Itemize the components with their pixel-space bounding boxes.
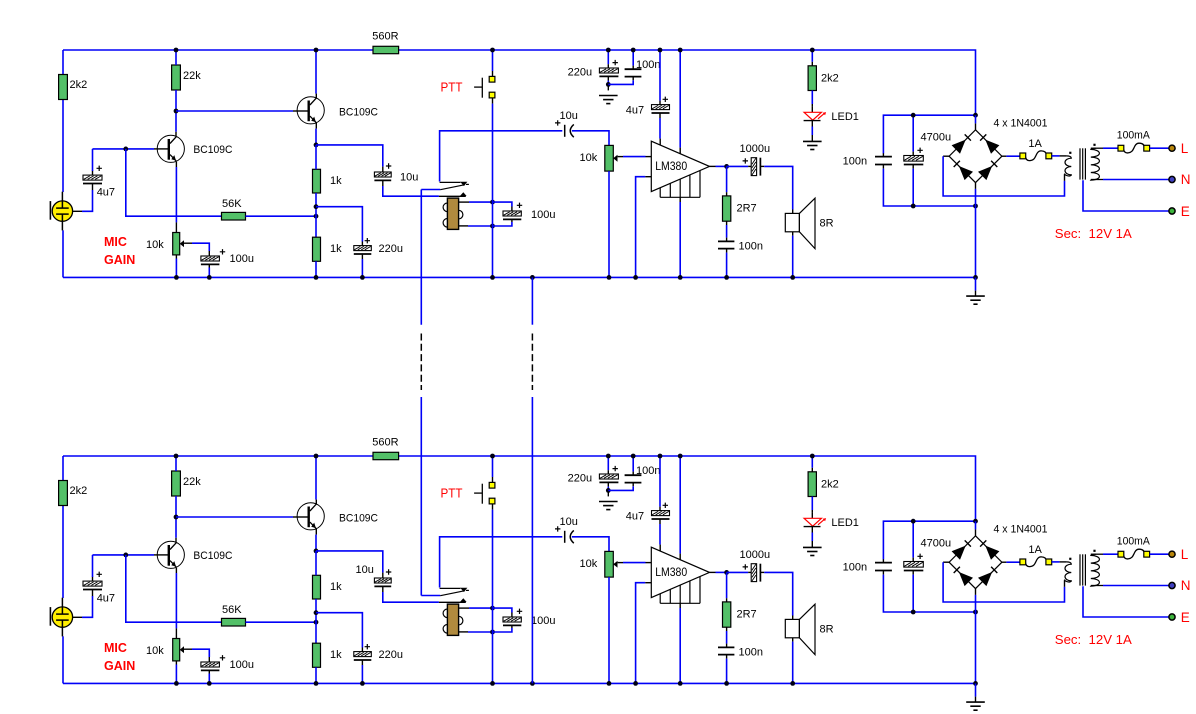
wire pot wiper to 100u (station 2) <box>184 648 192 650</box>
wire 220u bottom (station 2) <box>361 661 363 665</box>
fuse 100mA (station 2) <box>1124 549 1145 559</box>
wire PTT to coil (station 2) <box>492 504 494 510</box>
op-amp U1 LM380 (station 2) <box>651 547 709 597</box>
svg-text:L: L <box>1181 547 1189 562</box>
svg-text:Sec: 12V 1A: Sec: 12V 1A <box>1055 632 1132 647</box>
wire LM380 ground (station 2) <box>679 603 681 608</box>
svg-text:56K: 56K <box>222 198 242 210</box>
svg-text:PTT: PTT <box>441 486 463 501</box>
resistor 2k2 mic supply (station 1) <box>59 75 68 100</box>
wire interconnect line A <box>420 190 422 325</box>
microphone (station 1) <box>61 192 63 201</box>
wire volume pot bottom (station 1) <box>608 171 610 277</box>
wire 10u to switch (station 2) <box>382 586 384 592</box>
wire 100n link (station 2) <box>608 486 633 490</box>
capacitor 100n reservoir (station 2) <box>882 559 884 563</box>
bridge rectifier 4 x 1N4001 (station 1) <box>949 130 1002 183</box>
wire 220u to ground sym (station 2) <box>607 482 609 486</box>
resistor 560R supply (station 1) <box>373 46 399 53</box>
bridge left lead / AC (station 2) <box>943 561 949 563</box>
svg-text:100n: 100n <box>739 241 763 253</box>
potentiometer 10k MIC GAIN (station 1) <box>173 233 180 255</box>
wire 100u bottom (station 1) <box>208 264 210 267</box>
svg-text:GAIN: GAIN <box>104 659 135 673</box>
bridge bottom lead (station 1) <box>975 183 977 189</box>
svg-text:4u7: 4u7 <box>97 593 115 605</box>
switch PTT (station 2) <box>492 456 494 477</box>
wire secondary bottom (station 2) <box>1091 585 1103 587</box>
wire left rail lower (station 2) <box>62 506 64 599</box>
svg-text:100mA: 100mA <box>1117 536 1151 548</box>
wire pot bottom (station 2) <box>175 661 177 665</box>
svg-text:2k2: 2k2 <box>70 79 88 91</box>
svg-text:220u: 220u <box>568 473 592 485</box>
node Q2 emitter (station 1) <box>314 143 319 148</box>
wire Q1 emitter to pot (station 2) <box>175 568 177 573</box>
wire 220u to ground sym (station 1) <box>607 76 609 80</box>
capacitor 100u mic-gain bypass (station 1) <box>201 256 220 261</box>
microphone (station 2) <box>61 598 63 607</box>
svg-text:22k: 22k <box>183 70 201 82</box>
svg-text:560R: 560R <box>372 436 398 448</box>
wire 100n riser (station 1) <box>883 115 975 153</box>
speaker 8R (station 1) <box>785 213 799 231</box>
wire 100n riser (station 2) <box>883 521 975 559</box>
capacitor 100u line (station 2) <box>493 608 512 612</box>
svg-text:LED1: LED1 <box>831 111 859 123</box>
wire 4u7 to mic (station 2) <box>92 590 94 597</box>
transistor Q2 BC109C (station 1) <box>297 97 324 124</box>
switch lever (station 2) <box>421 595 440 597</box>
svg-text:2R7: 2R7 <box>737 609 757 621</box>
svg-text:N: N <box>1181 172 1191 187</box>
LM380 ground pins comb (station 1) <box>659 188 661 198</box>
bridge top lead (station 1) <box>975 123 977 129</box>
terminal L (station 1) <box>1169 145 1175 151</box>
wire 100n down (station 2) <box>882 571 884 575</box>
terminal L (station 2) <box>1169 551 1175 557</box>
ground supply filter (station 1) <box>599 95 618 97</box>
svg-text:100u: 100u <box>230 659 254 671</box>
svg-text:4 x 1N4001: 4 x 1N4001 <box>994 524 1048 536</box>
svg-text:Sec: 12V 1A: Sec: 12V 1A <box>1055 226 1132 241</box>
svg-text:4u7: 4u7 <box>626 511 644 523</box>
ground supply filter (station 2) <box>599 501 618 503</box>
LED1 (station 1) <box>811 91 813 107</box>
ground PSU (station 2) <box>975 683 977 696</box>
wire coil to ground rail (station 2) <box>492 632 494 683</box>
wire 22k to Q1 collector (station 1) <box>175 90 177 132</box>
wire Q2 emitter (station 1) <box>315 123 317 129</box>
svg-text:100u: 100u <box>531 615 555 627</box>
phase dot secondary (station 2) <box>1093 550 1095 552</box>
capacitor 100u mic-gain bypass (station 2) <box>201 662 220 667</box>
wire base to 4u7 (station 2) <box>92 555 94 577</box>
svg-text:100u: 100u <box>230 253 254 265</box>
phase dot secondary (station 1) <box>1093 144 1095 146</box>
wire 22k to Q1 collector (station 2) <box>175 496 177 538</box>
wire to 220u bypass (station 2) <box>316 613 362 648</box>
capacitor 100n zobel (station 1) <box>718 240 734 242</box>
svg-text:1k: 1k <box>330 649 342 661</box>
wire pot wiper to 100u (station 1) <box>184 242 192 244</box>
switch contact A (to receive path) (station 1) <box>440 131 563 182</box>
resistor 56K feedback (station 1) <box>222 212 246 220</box>
node coil top (station 1) <box>490 200 495 205</box>
wire LM380 output (station 1) <box>710 165 716 167</box>
bridge left lead / AC (station 1) <box>943 155 949 157</box>
bridge top lead (station 2) <box>975 529 977 535</box>
wire feedback riser (station 2) <box>126 555 221 622</box>
svg-text:MIC: MIC <box>104 235 127 249</box>
svg-text:1k: 1k <box>330 581 342 593</box>
capacitor 1000u output (station 1) <box>727 165 749 167</box>
node output (station 1) <box>724 164 729 169</box>
wire mic to ground rail (station 1) <box>62 230 64 277</box>
svg-text:E: E <box>1181 610 1190 625</box>
svg-text:2k2: 2k2 <box>821 479 839 491</box>
svg-text:4u7: 4u7 <box>626 105 644 117</box>
switch contact B (to talk path) (station 1) <box>439 195 466 197</box>
svg-text:BC109C: BC109C <box>339 513 378 525</box>
wire secondary top (station 1) <box>1091 147 1103 149</box>
node Q2 emitter (station 2) <box>314 549 319 554</box>
ground PSU (station 1) <box>975 277 977 290</box>
wire wiper to LM380 (station 1) <box>618 156 623 158</box>
svg-text:E: E <box>1181 204 1190 219</box>
svg-text:10u: 10u <box>560 110 578 122</box>
wire left rail upper (station 2) <box>62 456 64 481</box>
svg-text:100n: 100n <box>739 647 763 659</box>
node station link (station 2) <box>530 681 535 686</box>
wire LM380 pin14 (station 1) <box>679 50 681 148</box>
wire 10u to switch (station 1) <box>382 180 384 186</box>
wire Q1 base (station 2) <box>93 554 155 556</box>
wire LED to ground (station 1) <box>811 121 813 127</box>
terminal N (station 2) <box>1169 582 1175 588</box>
wire Q2 collector (station 1) <box>315 50 317 94</box>
node +V bridge (station 1) <box>973 113 978 118</box>
svg-text:1A: 1A <box>1028 138 1042 150</box>
wire 220u bottom (station 1) <box>361 255 363 259</box>
svg-text:4 x 1N4001: 4 x 1N4001 <box>994 118 1048 130</box>
svg-text:4700u: 4700u <box>921 538 952 550</box>
svg-text:8R: 8R <box>820 218 834 230</box>
capacitor 4700u reservoir (station 2) <box>912 521 914 557</box>
transistor Q1 BC109C (station 2) <box>157 541 184 568</box>
resistor 1k lower (station 2) <box>313 643 321 667</box>
svg-text:BC109C: BC109C <box>339 107 378 119</box>
svg-text:N: N <box>1181 578 1191 593</box>
fuse 1A (station 2) <box>1025 557 1046 567</box>
node coil bottom (station 1) <box>490 224 495 229</box>
wire mic to ground rail (station 2) <box>62 636 64 683</box>
wire bridge minus to ground rail (station 1) <box>975 206 977 277</box>
svg-text:MIC: MIC <box>104 641 127 655</box>
wire LM380 output (station 2) <box>710 571 716 573</box>
wire PTT to coil (station 1) <box>492 98 494 104</box>
wire emitter to 10u (station 1) <box>316 145 383 167</box>
resistor 56K feedback (station 2) <box>222 618 246 626</box>
transformer T1 mains (station 2) <box>1079 554 1081 585</box>
wire coil junctions (station 1) <box>492 202 494 226</box>
transformer T1 mains (station 1) <box>1079 148 1081 179</box>
op-amp U1 LM380 (station 1) <box>651 141 709 191</box>
wire base to 4u7 (station 1) <box>92 149 94 171</box>
LED1 (station 2) <box>811 497 813 513</box>
wire 10u to volume pot (station 1) <box>572 131 609 146</box>
wire secondary top (station 2) <box>1091 553 1103 555</box>
speaker 8R (station 2) <box>785 619 799 637</box>
svg-text:10u: 10u <box>400 172 418 184</box>
svg-text:100n: 100n <box>843 561 867 573</box>
capacitor 10u receive (station 2) <box>555 526 560 531</box>
svg-text:LED1: LED1 <box>831 517 859 529</box>
node station link (station 1) <box>530 275 535 280</box>
node coil top (station 2) <box>490 606 495 611</box>
coil top lead (station 1) <box>459 201 469 203</box>
wire fuse to primary (station 2) <box>1052 561 1060 563</box>
wire 100n down (station 1) <box>882 165 884 169</box>
svg-text:LM380: LM380 <box>655 567 687 579</box>
coil top lead (station 2) <box>459 607 469 609</box>
induction coil (station 2) <box>443 609 452 618</box>
wire 22k top (station 2) <box>175 456 177 471</box>
resistor 2R7 zobel (station 2) <box>726 572 728 598</box>
svg-text:1000u: 1000u <box>740 143 771 155</box>
wire feedback riser (station 1) <box>126 149 221 216</box>
wire speaker bottom (station 1) <box>792 232 794 236</box>
wire left rail upper (station 1) <box>62 50 64 75</box>
node Q1 collector / Q2 base (station 1) <box>174 109 179 114</box>
wire +V top rail (station 2) <box>63 456 976 521</box>
capacitor 100n reservoir (station 1) <box>882 153 884 157</box>
svg-text:100n: 100n <box>636 465 660 477</box>
LM380 ground pins comb (station 2) <box>659 594 661 604</box>
wire LED to ground (station 2) <box>811 527 813 533</box>
svg-text:10k: 10k <box>146 239 164 251</box>
svg-text:BC109C: BC109C <box>193 550 232 562</box>
resistor 2k2 mic supply (station 2) <box>59 481 68 506</box>
wire left rail lower (station 1) <box>62 100 64 193</box>
wire volume pot bottom (station 2) <box>608 577 610 683</box>
svg-text:10k: 10k <box>146 645 164 657</box>
svg-text:100n: 100n <box>843 155 867 167</box>
wire to 220u bypass (station 1) <box>316 207 362 242</box>
wire Q1 emitter to pot (station 1) <box>175 162 177 167</box>
resistor 2R7 zobel (station 1) <box>726 166 728 192</box>
wire coil to ground rail (station 1) <box>492 226 494 277</box>
capacitor 4u7 mic coupling (station 2) <box>92 577 94 582</box>
wire interconnect line B (ground link) <box>531 277 533 324</box>
svg-text:L: L <box>1181 141 1189 156</box>
wire LM380 ground (station 1) <box>679 197 681 202</box>
svg-text:100u: 100u <box>531 209 555 221</box>
capacitor 1000u output (station 2) <box>727 571 749 573</box>
wire to L terminal (station 2) <box>1150 553 1169 555</box>
svg-text:1k: 1k <box>330 175 342 187</box>
terminal E (station 1) <box>1169 208 1175 214</box>
wire 1k upper top (station 2) <box>315 551 317 575</box>
wire fuse to primary (station 1) <box>1052 155 1060 157</box>
wire 56K to Q2 emitter node (station 1) <box>246 215 317 217</box>
potentiometer 10k MIC GAIN (station 2) <box>173 639 180 661</box>
capacitor 220u emitter bypass (station 2) <box>354 652 372 657</box>
capacitor 220u supply (station 1) <box>607 50 609 64</box>
wire pot bottom (station 1) <box>175 255 177 259</box>
wire earth (station 1) <box>1083 180 1169 211</box>
wire 1k lower bottom (station 2) <box>315 667 317 683</box>
wire 22k top (station 1) <box>175 50 177 65</box>
svg-text:10k: 10k <box>580 152 598 164</box>
wire speaker bottom (station 2) <box>792 638 794 642</box>
wire LM380 input 2 (station 2) <box>636 583 646 684</box>
capacitor 10u receive (station 1) <box>555 120 560 125</box>
svg-text:1A: 1A <box>1028 544 1042 556</box>
svg-text:100mA: 100mA <box>1117 130 1151 142</box>
node 56K (station 1) <box>314 214 319 219</box>
node +V bridge (station 2) <box>973 519 978 524</box>
svg-text:8R: 8R <box>820 624 834 636</box>
wire ground bottom rail (station 1) <box>63 276 976 278</box>
svg-text:LM380: LM380 <box>655 161 687 173</box>
wire 1k upper top (station 1) <box>315 145 317 169</box>
transistor Q2 BC109C (station 2) <box>297 503 324 530</box>
bridge right lead (station 1) <box>1002 155 1007 157</box>
fuse 100mA (station 1) <box>1124 143 1145 153</box>
wire earth (station 2) <box>1083 586 1169 617</box>
wire secondary bottom (station 1) <box>1091 179 1103 181</box>
wire coil junctions (station 2) <box>492 608 494 632</box>
ground LED (station 1) <box>803 140 822 142</box>
bridge bottom lead (station 2) <box>975 589 977 595</box>
resistor 1k upper (station 1) <box>313 169 321 193</box>
capacitor 4700u reservoir (station 1) <box>912 115 914 151</box>
wire 100u bottom (station 2) <box>208 670 210 673</box>
wire 1k lower bottom (station 1) <box>315 261 317 277</box>
capacitor 220u emitter bypass (station 1) <box>354 246 372 251</box>
node negative rail (station 2) <box>973 610 978 615</box>
svg-text:GAIN: GAIN <box>104 253 135 267</box>
capacitor 4u7 LM380 bypass (station 2) <box>659 456 661 507</box>
wire 1k junctions (station 1) <box>315 193 317 237</box>
resistor 2k2 LED (station 1) <box>811 50 813 62</box>
wire Q1 base (station 1) <box>93 148 155 150</box>
svg-text:2R7: 2R7 <box>737 203 757 215</box>
wire 4u7 to mic (station 1) <box>92 184 94 191</box>
svg-text:2k2: 2k2 <box>70 485 88 497</box>
wire 10u to volume pot (station 2) <box>572 537 609 552</box>
capacitor 100u line (station 1) <box>493 202 512 206</box>
wire to L terminal (station 1) <box>1150 147 1169 149</box>
svg-text:10k: 10k <box>580 558 598 570</box>
resistor 1k lower (station 1) <box>313 237 321 261</box>
node Q1 base (station 2) <box>123 553 128 558</box>
node negative rail (station 1) <box>973 204 978 209</box>
wire Q2 base (station 1) <box>176 110 293 112</box>
svg-text:BC109C: BC109C <box>193 144 232 156</box>
wire emitter to 10u (station 2) <box>316 551 383 573</box>
svg-text:4700u: 4700u <box>921 132 952 144</box>
wire LM380 pin14 (station 2) <box>679 456 681 554</box>
switch contact B (to talk path) (station 2) <box>439 601 466 603</box>
svg-text:PTT: PTT <box>441 80 463 95</box>
potentiometer 10k volume (station 2) <box>605 551 614 577</box>
wire 2R7 to 100n (station 1) <box>726 221 728 225</box>
svg-text:10u: 10u <box>356 564 374 576</box>
capacitor 4u7 LM380 bypass (station 1) <box>659 50 661 101</box>
potentiometer 10k volume (station 1) <box>605 145 614 171</box>
wire 56K to Q2 emitter node (station 2) <box>246 621 317 623</box>
coil bottom lead (station 2) <box>459 631 468 633</box>
wire 1k junctions (station 2) <box>315 599 317 643</box>
bridge right lead (station 2) <box>1002 561 1007 563</box>
junction top rail 22k (station 1) <box>174 48 179 53</box>
node output (station 2) <box>724 570 729 575</box>
node Q1 base (station 1) <box>123 147 128 152</box>
wire 2R7 to 100n (station 2) <box>726 627 728 631</box>
phase dot primary (station 1) <box>1069 152 1071 154</box>
svg-text:10u: 10u <box>560 516 578 528</box>
wire Q2 collector (station 2) <box>315 456 317 500</box>
svg-text:22k: 22k <box>183 476 201 488</box>
switch PTT (station 1) <box>492 50 494 71</box>
node coil bottom (station 2) <box>490 630 495 635</box>
capacitor 220u supply (station 2) <box>607 456 609 470</box>
capacitor 4u7 mic coupling (station 1) <box>92 171 94 176</box>
wire bridge minus to ground rail (station 2) <box>975 612 977 683</box>
wire Q2 emitter (station 2) <box>315 529 317 535</box>
resistor 22k (station 2) <box>172 471 181 496</box>
wire +V top rail (station 1) <box>63 50 976 115</box>
wire ground bottom rail (station 2) <box>63 682 976 684</box>
transistor Q1 BC109C (station 1) <box>157 135 184 162</box>
svg-text:220u: 220u <box>379 243 403 255</box>
svg-text:4u7: 4u7 <box>97 187 115 199</box>
switch contact A (to receive path) (station 2) <box>440 537 563 588</box>
svg-text:560R: 560R <box>372 30 398 42</box>
wire LM380 input 2 (station 1) <box>636 177 646 278</box>
resistor 1k upper (station 2) <box>313 575 321 599</box>
wire 100n link (station 1) <box>608 80 633 84</box>
node 56K (station 2) <box>314 620 319 625</box>
fuse 1A (station 1) <box>1025 151 1046 161</box>
svg-text:2k2: 2k2 <box>821 73 839 85</box>
svg-text:220u: 220u <box>568 67 592 79</box>
capacitor 10u line coupling (station 1) <box>374 172 391 177</box>
svg-text:1k: 1k <box>330 243 342 255</box>
phase dot primary (station 2) <box>1069 558 1071 560</box>
svg-text:56K: 56K <box>222 604 242 616</box>
capacitor 100n supply (station 2) <box>632 456 634 472</box>
terminal E (station 2) <box>1169 614 1175 620</box>
bridge rectifier 4 x 1N4001 (station 2) <box>949 536 1002 589</box>
resistor 560R supply (station 2) <box>373 452 399 459</box>
induction coil (station 1) <box>443 203 452 212</box>
resistor 2k2 LED (station 2) <box>811 456 813 468</box>
svg-text:220u: 220u <box>379 649 403 661</box>
node Q1 collector / Q2 base (station 2) <box>174 515 179 520</box>
resistor 22k (station 1) <box>172 65 181 90</box>
svg-text:100n: 100n <box>636 59 660 71</box>
wire wiper to LM380 (station 2) <box>618 562 623 564</box>
capacitor 10u line coupling (station 2) <box>374 578 391 583</box>
coil bottom lead (station 1) <box>459 225 468 227</box>
ground LED (station 2) <box>803 546 822 548</box>
junction top rail 22k (station 2) <box>174 454 179 459</box>
switch lever (station 1) <box>421 189 440 191</box>
terminal N (station 1) <box>1169 176 1175 182</box>
